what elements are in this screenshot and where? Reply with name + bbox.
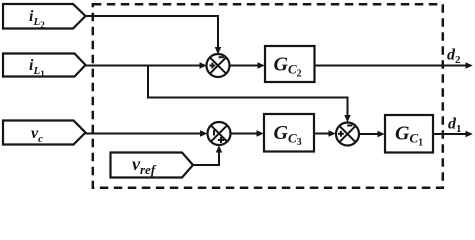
arrowhead output d2 (466, 62, 473, 68)
arrowhead output d1 (466, 131, 473, 137)
input flag vref (111, 153, 194, 178)
summing junction S3 (336, 123, 359, 146)
summing junction S1 (207, 54, 230, 77)
S2 minus tick (left input) (213, 130, 215, 136)
summing junction S2 (208, 122, 231, 145)
wire vc to summing junction S2 left (86, 133, 201, 135)
S2 plus sign (bottom input) (218, 137, 224, 143)
input flag iL2 (3, 4, 86, 29)
arrowhead into GC2 (258, 62, 265, 68)
svg-text:d1: d1 (448, 116, 462, 136)
wire vref up into S2 bottom (193, 152, 219, 166)
arrowhead into S3 top (344, 115, 350, 123)
wire S3 to block GC1 (359, 133, 378, 135)
wire GC3 to summing junction S3 left (314, 133, 329, 135)
wire iL2 to summing junction S1 top (86, 16, 219, 48)
input flag vc (3, 121, 86, 145)
S1 plus sign (left input) (210, 63, 216, 69)
wire GC2 to output d2 (315, 65, 467, 67)
arrowhead into S2 bottom (216, 145, 222, 152)
S3 plus sign (left input) (338, 131, 344, 137)
S3 minus sign (top input) (347, 125, 352, 127)
arrowhead into S1 top (215, 47, 221, 55)
wire S1 to block GC2 (230, 65, 259, 67)
block GC2 (265, 46, 315, 82)
wire S2 to block GC3 (231, 133, 258, 135)
arrowhead into S2 left (200, 130, 207, 136)
arrowhead into S1 left (200, 62, 207, 68)
arrowhead into GC1 (378, 131, 385, 137)
block GC3 (264, 114, 314, 152)
wire GC1 to output d1 (433, 133, 466, 135)
wire iL1 to summing junction S1 left (86, 65, 201, 67)
input flag iL1 (3, 54, 86, 77)
svg-text:d2: d2 (447, 47, 461, 67)
block GC1 (385, 115, 433, 153)
wire branch from iL1 down and across to S3 top (148, 66, 348, 117)
S1 minus sign (top input) (219, 56, 224, 58)
arrowhead into S3 left (329, 130, 336, 136)
dashed controller boundary box (93, 4, 443, 188)
arrowhead into GC3 (257, 130, 264, 136)
